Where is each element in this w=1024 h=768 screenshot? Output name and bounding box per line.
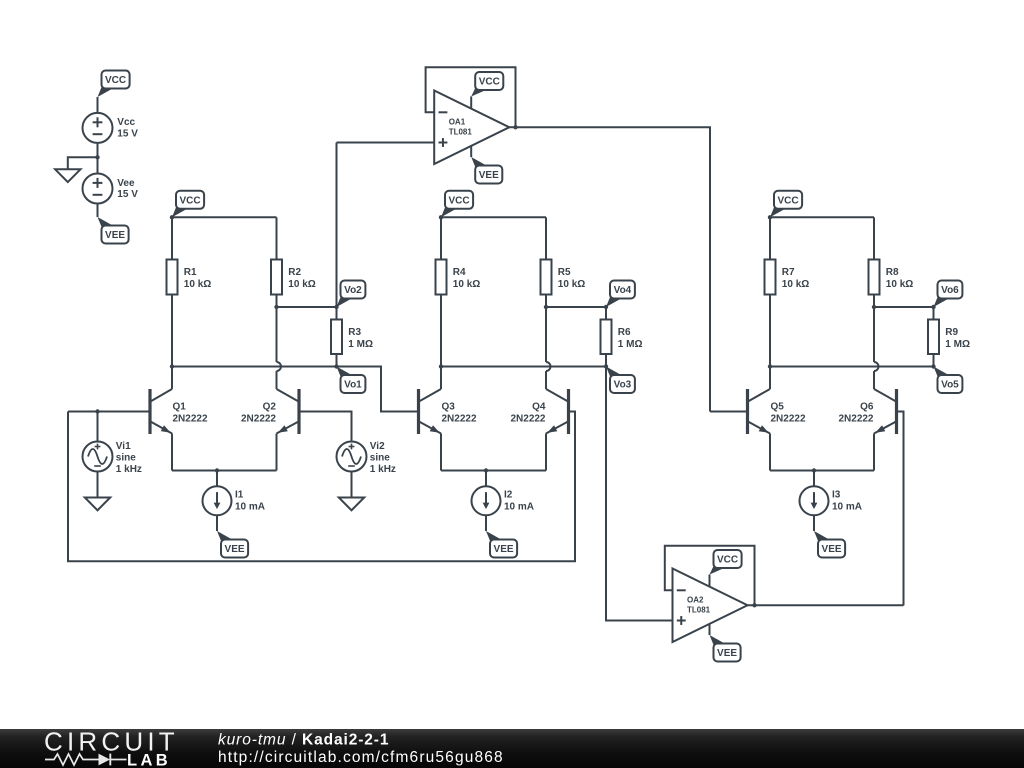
svg-text:Vo5: Vo5: [941, 380, 959, 391]
wire Vi1 bottom to ground: [97, 472, 99, 498]
op-amp OA2 TL081 VEE supply label: [710, 635, 741, 662]
wire Q5 collector: [769, 367, 771, 390]
svg-text:Q3: Q3: [442, 402, 456, 413]
svg-text:1 kHz: 1 kHz: [370, 464, 396, 475]
wire Vi2 bottom to ground: [351, 472, 353, 498]
svg-text:I1: I1: [235, 489, 244, 500]
wire Vo1 rail (stage 1): [172, 366, 337, 368]
wire Vo3 down to OA2 + input: [606, 367, 673, 621]
svg-text:VCC: VCC: [717, 555, 738, 566]
junction emitter rail / I2: [484, 468, 488, 472]
transistor Q3 2N2222: [419, 389, 477, 434]
voltage source Vee 15 V: [83, 174, 139, 204]
svg-text:VEE: VEE: [479, 170, 499, 181]
wire junction to Vee source top: [97, 157, 99, 173]
svg-text:Vo3: Vo3: [614, 380, 632, 391]
wire I2 bottom to VEE label: [485, 515, 487, 531]
junction node Vo2: [334, 305, 338, 309]
svg-text:2N2222: 2N2222: [241, 413, 276, 424]
wire R6 bottom to Vo3: [605, 354, 607, 367]
wire R2 junction down to Q2 collector (with hop): [276, 307, 278, 362]
wire hop bottom to Q6 collector: [873, 371, 875, 389]
junction R4 bottom / Q3 collector: [439, 364, 443, 368]
svg-text:VCC: VCC: [448, 195, 469, 206]
op-amp OA2 TL081: [673, 569, 748, 643]
svg-text:VEE: VEE: [105, 230, 125, 241]
transistor Q1 2N2222: [150, 389, 208, 434]
junction node Vo5: [931, 364, 935, 368]
svg-text:Vee: Vee: [117, 178, 135, 189]
op-amp OA1 TL081 VEE supply label: [471, 157, 502, 184]
wire Vo1 to Q3 base: [337, 367, 418, 412]
junction VCC rail stage 1: [170, 215, 174, 219]
svg-text:I2: I2: [504, 489, 513, 500]
wire Q2 base to Vi2: [301, 412, 352, 442]
wire emitter rail stage 2: [441, 470, 546, 472]
svg-text:kuro-tmu / Kadai2-2-1: kuro-tmu / Kadai2-2-1: [218, 732, 389, 749]
wire Q1 base: [68, 411, 149, 413]
wire emitter rail to I1: [216, 471, 218, 487]
op-amp OA1 TL081 VCC supply label: [471, 72, 503, 97]
current source I1 10 mA: [203, 486, 266, 515]
wire VCC rail stage 2: [441, 216, 546, 218]
wire Vee source bottom to VEE label: [97, 204, 99, 218]
wire Q5 emitter down: [769, 434, 771, 471]
junction R1 bottom / Q1 collector: [170, 364, 174, 368]
node Vo2: [337, 281, 366, 308]
svg-text:Q6: Q6: [860, 402, 874, 413]
svg-text:2N2222: 2N2222: [838, 413, 873, 424]
node Vo4: [606, 281, 635, 308]
svg-text:VCC: VCC: [105, 75, 126, 86]
op-amp OA1 TL081 VEE pin: [470, 146, 472, 157]
svg-text:OA2: OA2: [687, 596, 704, 605]
svg-text:Vo1: Vo1: [344, 380, 362, 391]
svg-text:TL081: TL081: [449, 127, 473, 136]
node VEE (supply rail label): [98, 217, 129, 244]
junction VCC rail stage 2: [439, 215, 443, 219]
wire VCC rail stage 3: [770, 216, 874, 218]
svg-text:2N2222: 2N2222: [771, 413, 806, 424]
wire Vi1 top: [97, 412, 99, 442]
svg-text:VEE: VEE: [717, 648, 737, 659]
node VEE (I3): [814, 531, 845, 558]
svg-text:Vo4: Vo4: [614, 285, 632, 296]
node VCC (supply rail label): [98, 71, 130, 98]
node VCC (stage 3): [770, 191, 802, 218]
wire OA2 output to Q6 base: [746, 604, 904, 606]
wire emitter rail stage 3: [770, 470, 874, 472]
CircuitLab logo resistor-diode glyph: [45, 754, 99, 765]
junction OA2 output: [752, 603, 756, 607]
ground (Vi2): [339, 498, 364, 511]
svg-text:VEE: VEE: [822, 544, 842, 555]
svg-text:10 mA: 10 mA: [235, 501, 265, 512]
current source I3 10 mA: [800, 486, 863, 515]
wire Q4 emitter down: [545, 434, 547, 471]
svg-text:2N2222: 2N2222: [442, 413, 477, 424]
svg-text:10 kΩ: 10 kΩ: [453, 279, 480, 290]
svg-text:10 kΩ: 10 kΩ: [886, 279, 913, 290]
svg-text:R3: R3: [348, 327, 361, 338]
node Vo6: [934, 281, 963, 308]
svg-text:R8: R8: [886, 267, 899, 278]
svg-text:VCC: VCC: [479, 77, 500, 88]
wire Q6 emitter down: [873, 434, 875, 471]
wire R6 top stub: [605, 307, 607, 320]
svg-text:sine: sine: [370, 452, 390, 463]
wire R8 junction down (to hop): [873, 307, 875, 362]
svg-text:LAB: LAB: [127, 751, 171, 768]
svg-text:Vo6: Vo6: [941, 285, 959, 296]
junction OA1 output: [513, 125, 517, 129]
junction node Vo6: [931, 305, 935, 309]
svg-text:10 kΩ: 10 kΩ: [558, 279, 585, 290]
junction VCC rail stage 3: [768, 215, 772, 219]
svg-text:VEE: VEE: [225, 544, 245, 555]
wire VCC rail to R2 top: [276, 217, 278, 259]
svg-text:Q4: Q4: [532, 402, 546, 413]
svg-text:2N2222: 2N2222: [510, 413, 545, 424]
wire hop bottom to Q2 collector: [276, 371, 278, 389]
svg-text:1 MΩ: 1 MΩ: [618, 339, 643, 350]
resistor R5 10 k: [541, 260, 586, 295]
node VEE (I1): [217, 531, 248, 558]
wire emitter rail stage 1: [172, 470, 277, 472]
wire R8 junction to R9 top: [874, 306, 934, 308]
wire VCC rail to R8 top: [873, 217, 875, 259]
junction emitter rail / I3: [812, 468, 816, 472]
wire VCC rail to R5 top: [545, 217, 547, 259]
svg-text:Q1: Q1: [173, 402, 187, 413]
junction power mid-point: [95, 155, 99, 159]
wire hop bottom to Q4 collector: [545, 371, 547, 389]
voltage source Vi2 sine 1 kHz: [337, 441, 396, 475]
resistor R6 1 M: [601, 320, 643, 355]
wire Q2 emitter down: [276, 434, 278, 471]
wire VCC rail to R1 top: [171, 217, 173, 259]
svg-text:1 MΩ: 1 MΩ: [945, 339, 970, 350]
wire OA1 output to Q5 base: [508, 127, 710, 411]
node VEE (I2): [486, 531, 517, 558]
svg-text:Q5: Q5: [771, 402, 785, 413]
wire R5 junction down (to hop): [545, 307, 547, 362]
svg-text:2N2222: 2N2222: [173, 413, 208, 424]
wire junction to ground: [68, 157, 98, 169]
transistor Q5 2N2222: [748, 389, 806, 434]
wire R7 bottom to Q5 collector rail: [769, 295, 771, 367]
resistor R9 1 M: [928, 320, 970, 355]
wire R5 junction to R6 top: [546, 306, 606, 308]
transistor Q6 2N2222: [838, 389, 896, 434]
svg-text:VCC: VCC: [179, 195, 200, 206]
wire OA2 - input feedback: [665, 546, 755, 606]
wire OA1 - input feedback: [426, 67, 516, 127]
footer banner: [0, 0, 1, 1]
junction node Vo3: [604, 364, 608, 368]
junction node Vo1: [334, 364, 338, 368]
wire OA1 + input from Vo2: [337, 142, 435, 144]
voltage source Vcc 15 V: [83, 113, 139, 143]
wire Q4 base stub: [570, 411, 575, 413]
wire R2 bottom to R3 top: [277, 306, 337, 308]
wire R2 bottom to Vo2 junction: [276, 295, 278, 308]
op-amp OA2 TL081 VCC supply label: [710, 550, 742, 575]
ground (Vi1): [85, 498, 110, 511]
svg-text:sine: sine: [116, 452, 136, 463]
current source I2 10 mA: [472, 486, 535, 515]
wire Q1 collector: [171, 367, 173, 390]
wire OA2 + input stub: [660, 620, 673, 622]
svg-text:http://circuitlab.com/cfm6ru56: http://circuitlab.com/cfm6ru56gu868: [218, 749, 504, 766]
svg-text:10 mA: 10 mA: [832, 501, 862, 512]
junction R5 bottom: [544, 305, 548, 309]
wire Q3 emitter down: [440, 434, 442, 471]
junction R7 bottom / Q5 collector: [768, 364, 772, 368]
wire R5 bottom to junction: [545, 295, 547, 308]
voltage source Vi1 sine 1 kHz: [83, 441, 142, 475]
wire Vcc source bottom to junction: [97, 143, 99, 157]
node VCC (stage 2): [441, 191, 473, 218]
resistor R7 10 k: [765, 260, 810, 295]
node Vo5: [934, 367, 963, 394]
wire R9 bottom to Vo5: [933, 354, 935, 367]
wire R9 top stub: [933, 307, 935, 320]
svg-text:I3: I3: [832, 489, 841, 500]
junction Q1 base / Vi1: [95, 409, 99, 413]
resistor R3 1 M: [331, 320, 373, 355]
svg-text:10 mA: 10 mA: [504, 501, 534, 512]
node Vo1: [337, 367, 366, 394]
svg-text:R2: R2: [288, 267, 301, 278]
wire R8 bottom to junction: [873, 295, 875, 308]
svg-text:15 V: 15 V: [117, 189, 138, 200]
op-amp OA2 TL081 VEE pin: [709, 624, 711, 635]
svg-text:10 kΩ: 10 kΩ: [288, 279, 315, 290]
svg-text:R9: R9: [945, 327, 958, 338]
wire Vo3 rail (stage 2): [441, 366, 606, 368]
junction node Vo4: [604, 305, 608, 309]
transistor Q2 2N2222: [241, 389, 299, 434]
wire R3 bottom to Vo1: [336, 354, 338, 367]
svg-text:VCC: VCC: [777, 195, 798, 206]
wire emitter rail to I3: [813, 471, 815, 487]
svg-text:OA1: OA1: [449, 118, 466, 127]
svg-text:10 kΩ: 10 kΩ: [782, 279, 809, 290]
wire I3 bottom to VEE label: [813, 515, 815, 531]
svg-text:R7: R7: [782, 267, 795, 278]
svg-text:Vcc: Vcc: [117, 117, 135, 128]
transistor Q4 2N2222: [510, 389, 568, 434]
resistor R4 10 k: [436, 260, 481, 295]
svg-text:R1: R1: [184, 267, 197, 278]
svg-text:R5: R5: [558, 267, 571, 278]
svg-text:VEE: VEE: [494, 544, 514, 555]
junction R2 bottom: [274, 305, 278, 309]
wire Vo5 rail (stage 3): [770, 366, 934, 368]
wire Q5 base from OA1: [710, 411, 746, 413]
svg-text:15 V: 15 V: [117, 128, 138, 139]
node VCC (stage 1): [172, 191, 204, 218]
wire VCC rail to R4 top: [440, 217, 442, 259]
svg-text:Vi2: Vi2: [370, 441, 385, 452]
resistor R8 10 k: [869, 260, 914, 295]
wire hop over Vo5 rail (stage 3): [874, 362, 879, 371]
svg-text:Q2: Q2: [263, 402, 277, 413]
wire R4 bottom to Q3 collector rail: [440, 295, 442, 367]
wire emitter rail to I2: [485, 471, 487, 487]
ground (power supplies): [55, 169, 80, 182]
wire VCC rail stage 1: [172, 216, 277, 218]
wire Q6 base to OA2 output: [898, 412, 904, 606]
wire Q3 collector: [440, 367, 442, 390]
wire Q1 emitter down: [171, 434, 173, 471]
op-amp OA2 TL081 VCC pin: [709, 575, 711, 587]
wire hop over Vo3 rail (stage 2): [546, 362, 551, 371]
wire I1 bottom to VEE label: [216, 515, 218, 531]
svg-text:Vi1: Vi1: [116, 441, 131, 452]
resistor R2 10 k: [271, 260, 316, 295]
junction emitter rail / I1: [215, 468, 219, 472]
wire Vi1 node loop to Q4 base: [68, 412, 575, 562]
node Vo3: [606, 367, 635, 394]
wire hop over Vo1 rail (stage 1): [277, 362, 282, 371]
wire R3 top stub: [336, 307, 338, 320]
wire R1 bottom to Q1 collector rail: [171, 295, 173, 367]
svg-text:1 MΩ: 1 MΩ: [348, 339, 373, 350]
wire VCC label to Vcc source top: [97, 97, 99, 113]
svg-text:Vo2: Vo2: [344, 285, 362, 296]
svg-text:10 kΩ: 10 kΩ: [184, 279, 211, 290]
svg-text:R6: R6: [618, 327, 631, 338]
op-amp OA1 TL081: [434, 91, 509, 165]
svg-text:TL081: TL081: [687, 605, 711, 614]
resistor R1 10 k: [167, 260, 212, 295]
wire Vo2 up to OA1 + input: [336, 143, 338, 308]
svg-text:R4: R4: [453, 267, 466, 278]
wire VCC rail to R7 top: [769, 217, 771, 259]
junction R8 bottom: [872, 305, 876, 309]
op-amp OA1 TL081 VCC pin: [470, 97, 472, 109]
svg-text:1 kHz: 1 kHz: [116, 464, 142, 475]
